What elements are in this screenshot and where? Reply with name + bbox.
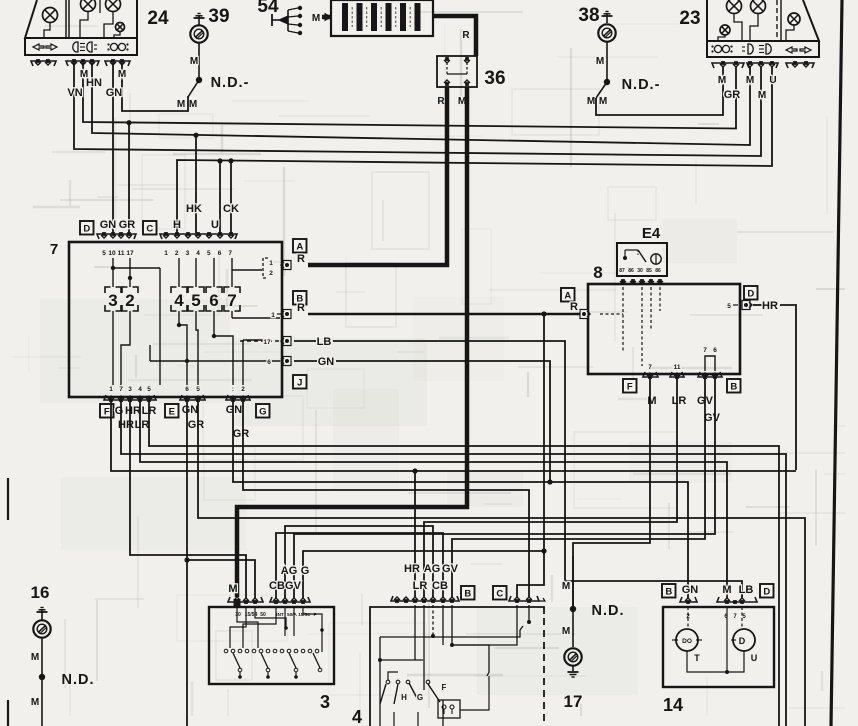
svg-text:M: M — [189, 99, 197, 110]
connector F bar — [104, 395, 156, 400]
connector fan 54 — [287, 10, 289, 31]
svg-text:87: 87 — [619, 268, 625, 274]
connector 8 bottom B — [698, 372, 722, 377]
connector 23 pins A — [712, 63, 744, 68]
svg-text:R: R — [437, 96, 445, 107]
svg-text:E4: E4 — [642, 225, 661, 242]
svg-text:M: M — [118, 69, 126, 80]
svg-text:17: 17 — [564, 692, 583, 711]
wire U column — [219, 161, 221, 233]
label box J (7) — [293, 375, 307, 389]
svg-text:M: M — [177, 99, 185, 110]
wire HK column — [195, 135, 197, 233]
svg-text:5: 5 — [191, 291, 200, 310]
svg-text:1: 1 — [269, 260, 273, 267]
svg-text:U: U — [211, 219, 219, 231]
svg-text:D: D — [747, 289, 754, 300]
headlamp 24 strip icons — [33, 44, 44, 50]
svg-text:2: 2 — [269, 270, 273, 277]
connector D bar — [97, 234, 136, 239]
battery 54 box — [331, 0, 433, 36]
wire GN-G col to 14 — [233, 397, 688, 598]
svg-text:M: M — [718, 75, 726, 86]
wire G of 3 to R branch — [303, 551, 544, 598]
svg-text:D: D — [763, 587, 770, 598]
svg-text:30: 30 — [637, 268, 643, 274]
svg-text:GN: GN — [226, 404, 243, 416]
svg-text:38: 38 — [578, 5, 599, 26]
fusebox 7 outline — [69, 242, 282, 397]
svg-text:6: 6 — [185, 386, 189, 393]
svg-text:LR: LR — [135, 419, 150, 431]
svg-text:U: U — [751, 653, 758, 663]
ground point 17 — [572, 556, 574, 606]
svg-text:GR: GR — [724, 89, 741, 101]
svg-text:7: 7 — [648, 364, 652, 371]
svg-text:AG: AG — [424, 563, 441, 575]
wire GR-G col to 4C — [243, 397, 529, 597]
svg-text:E: E — [169, 407, 175, 418]
label box B (4) — [461, 586, 475, 600]
connector E bar — [180, 395, 205, 400]
svg-text:7: 7 — [119, 386, 123, 393]
svg-text:HR: HR — [762, 300, 778, 312]
svg-text:M: M — [722, 584, 731, 596]
connector G bar — [226, 395, 250, 400]
svg-text:HR: HR — [404, 563, 420, 575]
svg-text:F: F — [104, 407, 110, 418]
wire CK column — [230, 161, 232, 234]
wire 38 ground to 23-M — [596, 66, 723, 115]
svg-text:AG: AG — [281, 565, 298, 577]
svg-text:GV: GV — [442, 563, 459, 575]
connector 3 right — [270, 597, 310, 602]
relay E4 — [617, 243, 667, 276]
svg-text:GV: GV — [285, 580, 302, 592]
label box A (7) — [293, 239, 307, 253]
svg-text:7: 7 — [50, 241, 58, 258]
svg-text:23: 23 — [679, 8, 700, 29]
svg-text:INT: INT — [276, 612, 284, 617]
wire LR col off-page — [149, 397, 779, 726]
svg-text:M: M — [562, 581, 570, 592]
svg-text:GR: GR — [188, 419, 205, 431]
svg-text:B: B — [665, 587, 672, 598]
svg-text:R: R — [462, 30, 470, 41]
svg-text:N.D.-: N.D.- — [211, 75, 250, 91]
svg-text:4: 4 — [196, 250, 200, 257]
svg-text:A: A — [296, 242, 303, 253]
svg-text:7: 7 — [703, 347, 707, 354]
switch 4 outline — [370, 607, 544, 726]
svg-text:J: J — [297, 378, 302, 389]
svg-text:6: 6 — [218, 250, 222, 257]
wire GN column 24 to D — [112, 63, 114, 233]
svg-text:17: 17 — [126, 250, 134, 257]
label box E (7) — [165, 404, 179, 418]
svg-text:GV: GV — [704, 412, 721, 424]
connector 8 bottom mid — [670, 372, 684, 377]
svg-text:DO: DO — [682, 638, 692, 645]
cluster 14 outline — [663, 607, 774, 687]
fuse 3 — [105, 287, 111, 293]
connector 4 C bar — [509, 596, 539, 601]
ground point 38 — [602, 15, 613, 17]
svg-text:M: M — [190, 56, 198, 67]
svg-text:6: 6 — [713, 347, 717, 354]
svg-text:4: 4 — [174, 291, 184, 310]
svg-text:CB: CB — [269, 580, 285, 592]
svg-text:C: C — [146, 224, 153, 235]
svg-text:50/A: 50/A — [287, 612, 297, 617]
svg-text:F: F — [627, 382, 633, 393]
svg-text:GN: GN — [100, 219, 117, 231]
wire LR col to 14-M — [140, 397, 727, 598]
svg-text:LR: LR — [413, 580, 428, 592]
fusebox 7 internal wiring — [112, 258, 114, 287]
svg-text:5: 5 — [727, 303, 731, 310]
wire GR-E col off-page — [198, 397, 805, 726]
svg-text:A: A — [564, 291, 571, 302]
svg-text:R: R — [297, 302, 305, 314]
svg-text:1: 1 — [271, 312, 275, 319]
connector 8 bottom F — [643, 372, 658, 377]
svg-text:36: 36 — [484, 68, 505, 89]
svg-text:LR: LR — [672, 395, 687, 407]
svg-text:LB: LB — [739, 584, 754, 596]
page border left fragment — [7, 478, 9, 520]
svg-text:3: 3 — [108, 291, 117, 310]
svg-text:5: 5 — [102, 250, 106, 257]
svg-text:HK: HK — [186, 203, 202, 215]
wire HR from 8 — [753, 304, 762, 306]
connector 4 B bar — [391, 596, 459, 601]
svg-text:30: 30 — [235, 612, 241, 618]
wire HR col off-page — [121, 397, 786, 726]
svg-text:M: M — [599, 96, 607, 107]
svg-text:5: 5 — [207, 250, 211, 257]
switch 3 contacts — [237, 607, 258, 632]
switch 4 internals — [414, 605, 416, 660]
svg-text:M: M — [562, 626, 570, 637]
wire M 8 to ground 17 — [573, 374, 650, 606]
wire LR 8 to 4 — [424, 374, 677, 597]
wire LB from 7 — [294, 340, 316, 342]
fuse 4 — [171, 287, 177, 293]
svg-text:M: M — [31, 652, 39, 663]
wire AG link 3-4 — [285, 526, 433, 598]
svg-text:GN: GN — [682, 584, 699, 596]
wire battery to 36 (R) — [433, 16, 476, 56]
svg-text:24: 24 — [147, 8, 169, 29]
connector 14 D — [717, 597, 757, 602]
svg-text:N.D.: N.D. — [62, 672, 95, 688]
cluster 14 lamps — [687, 607, 689, 629]
connector 14 B — [680, 597, 697, 602]
svg-text:HN: HN — [86, 77, 102, 89]
svg-text:3: 3 — [320, 692, 330, 712]
svg-text:M: M — [647, 395, 656, 407]
pin A1-2 (7) — [263, 258, 268, 278]
svg-text:M: M — [596, 56, 604, 67]
wire GV 8 to 4 — [452, 374, 705, 597]
box 8 outline — [588, 284, 740, 374]
ground point 16 — [37, 611, 48, 613]
svg-text:CK: CK — [223, 203, 239, 215]
svg-text:N.D.-: N.D.- — [622, 77, 661, 93]
svg-text:D: D — [83, 224, 90, 235]
svg-text:5: 5 — [147, 386, 151, 393]
svg-text:86: 86 — [655, 268, 661, 274]
wire HR2 col to 3 — [130, 397, 246, 598]
svg-text:8: 8 — [593, 263, 602, 282]
wire GN-E col to 3 — [186, 397, 188, 726]
wire GR column to D — [128, 122, 130, 233]
connector C bar — [160, 234, 237, 239]
svg-text:M: M — [312, 13, 320, 24]
relay E4 pins — [621, 279, 625, 283]
svg-text:11: 11 — [118, 250, 125, 257]
svg-text:M: M — [758, 90, 766, 101]
label box D (14) — [760, 584, 774, 598]
wire GV 8 to 3 — [294, 374, 715, 598]
svg-text:11: 11 — [674, 364, 681, 371]
wire 24-M to 39 ground — [122, 63, 188, 111]
label box B (7) — [293, 291, 307, 305]
svg-text:G: G — [417, 693, 423, 702]
svg-text::: : — [232, 386, 234, 393]
ground point 39 — [194, 17, 205, 19]
fuse 6 — [206, 287, 212, 293]
svg-text:N.D.: N.D. — [592, 603, 625, 619]
wire GN from 7 — [294, 360, 318, 362]
svg-text:1: 1 — [109, 386, 113, 393]
connector 24 pins B — [66, 61, 99, 66]
label box F (8) — [623, 379, 637, 393]
svg-text:GR: GR — [119, 219, 136, 231]
label box A (8) — [561, 288, 575, 302]
svg-text:R: R — [297, 253, 305, 265]
svg-text:B: B — [464, 589, 471, 600]
svg-text:50: 50 — [260, 612, 266, 618]
label box B (8) — [727, 379, 741, 393]
svg-text:M: M — [31, 697, 39, 708]
svg-text:5: 5 — [196, 386, 200, 393]
svg-text:1: 1 — [164, 250, 168, 257]
fuse 7 — [224, 287, 230, 293]
connector 3 left — [228, 597, 263, 602]
svg-text:C: C — [496, 589, 503, 600]
wire G col to HR net — [111, 397, 796, 471]
svg-text:B: B — [730, 382, 737, 393]
svg-text:4: 4 — [352, 707, 362, 726]
svg-text:M: M — [587, 96, 595, 107]
svg-text:16: 16 — [31, 583, 50, 602]
svg-text:54: 54 — [257, 0, 279, 17]
svg-text:H: H — [173, 219, 181, 231]
label box G (7) — [256, 404, 270, 418]
wire 24-VN to 23-M — [74, 63, 761, 156]
wire R branch to 4C — [517, 314, 544, 597]
connector 24 pins A — [31, 61, 56, 66]
svg-text:HR: HR — [125, 405, 141, 417]
svg-text:G: G — [259, 407, 266, 418]
svg-text:T: T — [694, 653, 700, 663]
svg-text:U: U — [769, 75, 776, 86]
label box F (7) — [100, 404, 114, 418]
label box B (14) — [662, 584, 676, 598]
svg-text:F: F — [442, 683, 447, 692]
svg-text:R: R — [570, 301, 578, 313]
label box D — [80, 221, 94, 235]
svg-text:4: 4 — [138, 386, 142, 393]
label box C — [143, 221, 157, 235]
svg-text:39: 39 — [208, 6, 229, 27]
svg-text:H: H — [401, 693, 407, 702]
svg-text:3: 3 — [186, 250, 190, 257]
wire 23-U to fusebox C — [177, 66, 772, 233]
svg-text:GR: GR — [233, 428, 250, 440]
svg-text:M: M — [746, 75, 754, 86]
svg-text:VN: VN — [67, 87, 82, 99]
svg-text:G: G — [301, 565, 310, 577]
page border right — [831, 0, 842, 726]
connector 36 — [437, 56, 477, 87]
svg-text:GN: GN — [182, 404, 199, 416]
label box D (8) — [744, 286, 758, 300]
svg-text:CB: CB — [432, 580, 448, 592]
svg-text:GN: GN — [318, 356, 335, 368]
connector 24 pins C — [105, 61, 130, 66]
svg-text:17: 17 — [263, 339, 271, 346]
svg-text:2: 2 — [125, 291, 134, 310]
connector 23 pins B — [747, 63, 778, 68]
svg-text:6: 6 — [209, 291, 218, 310]
wire 24-M to 23-GR — [83, 63, 736, 129]
svg-text:85: 85 — [646, 268, 652, 274]
box 8 internal wiring — [622, 287, 624, 352]
svg-text:10: 10 — [108, 250, 116, 257]
svg-text:M: M — [228, 583, 237, 595]
svg-text:7: 7 — [227, 291, 236, 310]
wire CB link 3-4 — [276, 533, 443, 598]
headlamp unit 23 body — [707, 0, 819, 41]
svg-text:6: 6 — [267, 359, 271, 366]
svg-text:86: 86 — [628, 268, 634, 274]
svg-text:2: 2 — [241, 386, 245, 393]
svg-text:GN: GN — [106, 87, 123, 99]
headlamp 23 strip icons — [714, 45, 721, 52]
svg-text:14: 14 — [663, 695, 683, 715]
svg-text:LB: LB — [317, 336, 332, 348]
svg-text:7: 7 — [228, 250, 232, 257]
svg-text:2: 2 — [175, 250, 179, 257]
fuse 2 — [122, 287, 128, 293]
label box C (4) — [493, 586, 507, 600]
svg-text:D: D — [739, 636, 746, 646]
connector 23 pins C — [786, 63, 814, 68]
pin A (8) — [580, 310, 588, 319]
wire 24-HN to 23-H — [92, 63, 750, 145]
switch 3 outline — [209, 607, 334, 684]
wire M thick 36 to switch 3 — [237, 87, 467, 597]
headlamp unit 24 body — [25, 0, 137, 38]
fuse 5 — [188, 287, 194, 293]
svg-text:3: 3 — [128, 386, 132, 393]
wire R thick 36 to fusebox A — [308, 87, 447, 265]
svg-text:G: G — [115, 405, 124, 417]
